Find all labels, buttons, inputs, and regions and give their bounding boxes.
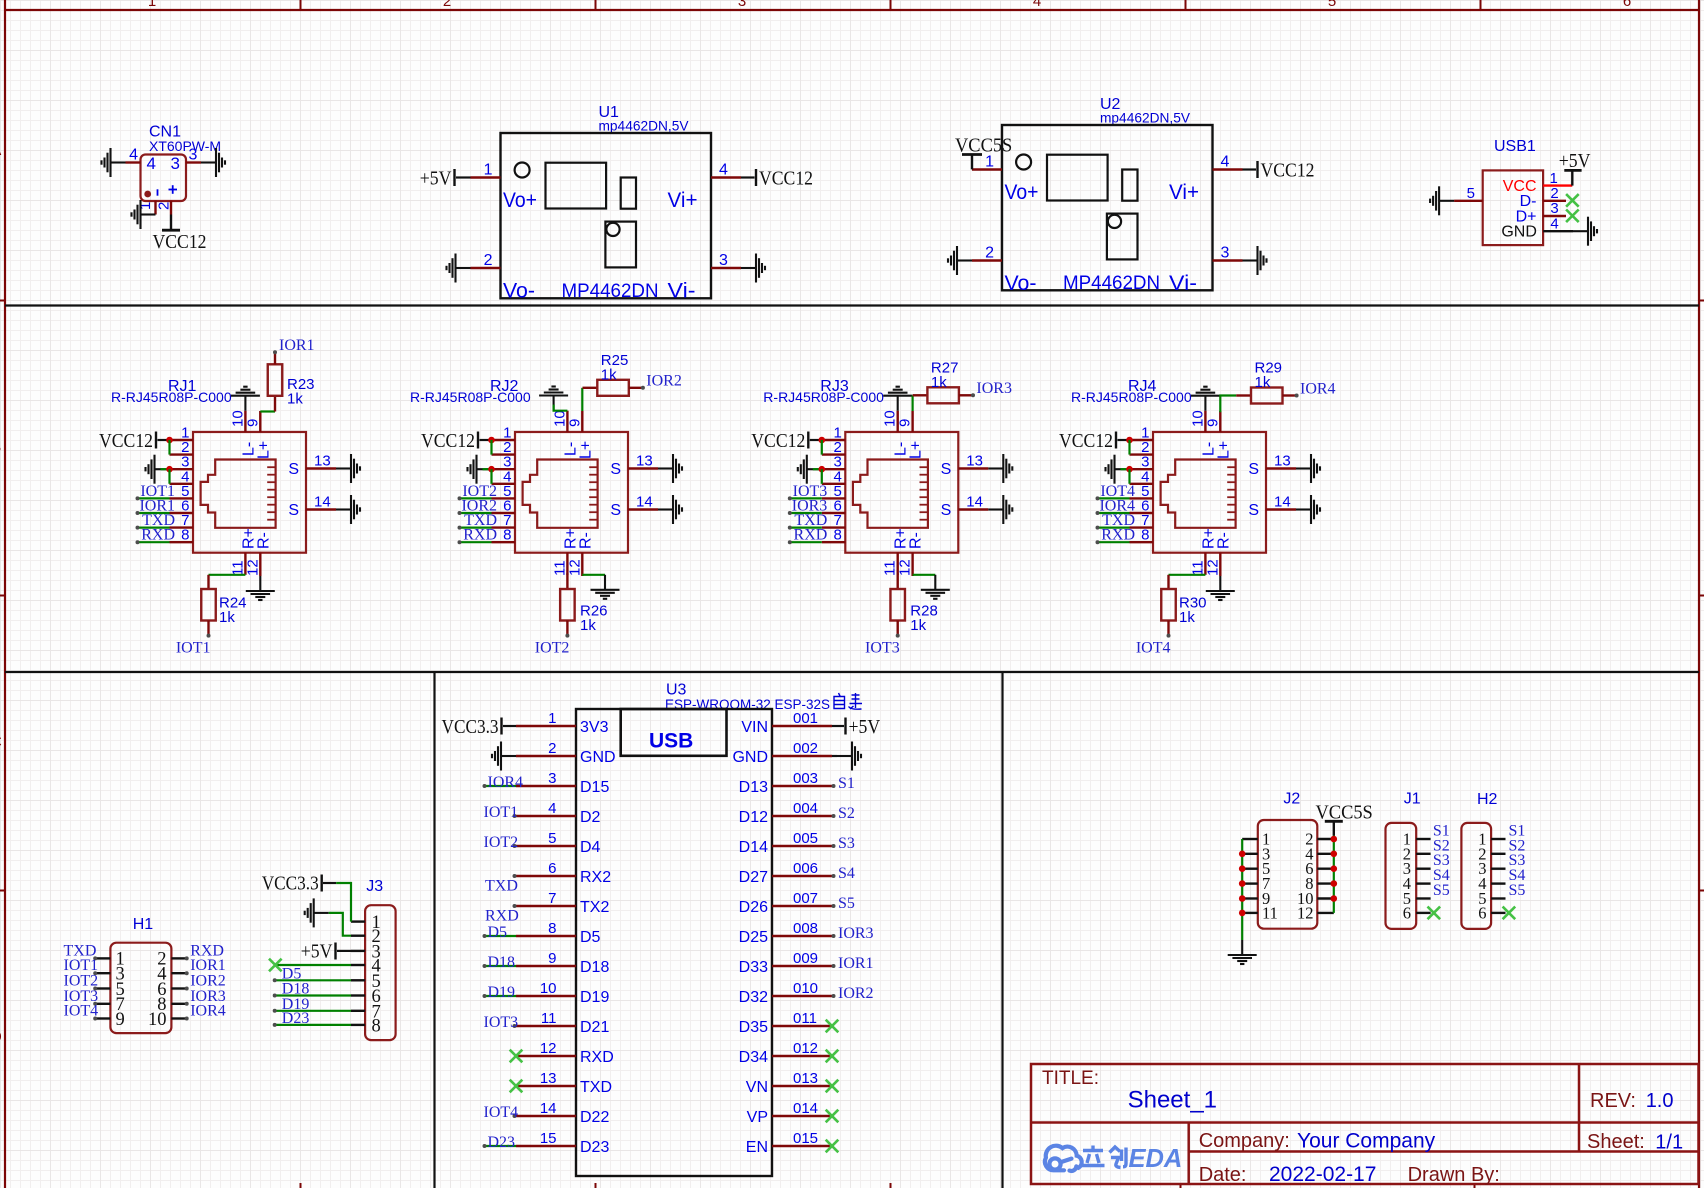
svg-text:D27: D27 — [739, 869, 768, 886]
svg-text:U3: U3 — [666, 682, 687, 699]
svg-text:IOR3: IOR3 — [976, 380, 1012, 397]
svg-text:D5: D5 — [580, 929, 601, 946]
junction J2 right bus — [1331, 851, 1338, 858]
ground at RJ1 pin 12 — [246, 576, 275, 600]
J3 pin 8 — [351, 1024, 365, 1026]
U1 interior rectangle small — [621, 178, 636, 209]
RJ3 pin 6 — [822, 512, 846, 514]
svg-text:D35: D35 — [739, 1019, 768, 1036]
section divider line horizontal 2 — [5, 671, 1699, 673]
ground at CN1 pin 4 — [102, 148, 126, 177]
svg-text:VCC12: VCC12 — [153, 231, 207, 253]
wire RJ1 pin 8 net RXD — [138, 541, 170, 543]
svg-text:IOR4: IOR4 — [488, 774, 524, 791]
svg-text:R-RJ45R08P-C000: R-RJ45R08P-C000 — [111, 389, 232, 405]
RJ4 pin 2 — [1130, 453, 1154, 455]
junction J2 right bus — [1331, 895, 1338, 902]
RJ1 pin 2 — [170, 453, 194, 455]
wire end IOR3 — [185, 1002, 189, 1006]
svg-text:D25: D25 — [739, 929, 768, 946]
power flag VCC5S at U2 pin 1 — [955, 135, 1012, 170]
svg-text:D23: D23 — [282, 1010, 310, 1027]
svg-text:VCC12: VCC12 — [759, 168, 813, 190]
svg-text:D18: D18 — [488, 954, 516, 971]
RJ4 pin 14 S — [1266, 508, 1296, 510]
wire end IOR3 — [832, 934, 836, 938]
svg-text:13: 13 — [314, 453, 331, 470]
svg-text:REV:: REV: — [1590, 1090, 1636, 1112]
wire end IOR2 — [641, 386, 645, 390]
wire RJ1 pin 9 to R23 — [260, 410, 275, 412]
net flag VCC12 at CN1 pin 2 — [153, 215, 207, 254]
svg-text:VP: VP — [747, 1109, 768, 1126]
U3 pin 1 3V3 — [516, 725, 576, 727]
svg-text:Drawn By:: Drawn By: — [1408, 1164, 1500, 1186]
ground at U2 pin 3 — [1243, 246, 1267, 275]
EasyEDA logo cloud — [1045, 1146, 1082, 1171]
svg-text:L+: L+ — [577, 441, 594, 459]
RJ1 pin 5 — [170, 497, 194, 499]
svg-text:VCC12: VCC12 — [751, 430, 805, 452]
U1 interior circle 2 — [606, 223, 619, 236]
wire end RXD — [1096, 540, 1100, 544]
CN1 pin 1 name minus — [157, 189, 159, 195]
module U3 value CJK suffix — [834, 693, 862, 709]
net label VCC3.3 at U3 pin 1 — [442, 716, 502, 738]
svg-text:D19: D19 — [580, 989, 609, 1006]
RJ4 pin 5 — [1130, 497, 1154, 499]
U3 pin 3 D15 — [516, 785, 576, 787]
header J3 body — [365, 905, 396, 1040]
RJ3 pin 9 L+ — [911, 411, 913, 432]
ground at J3 pin 2 — [305, 898, 329, 927]
ground at RJ1 pin 3 — [146, 455, 170, 484]
svg-text:Vo+: Vo+ — [503, 189, 537, 212]
wire end TXD — [513, 874, 517, 878]
svg-text:12: 12 — [566, 559, 583, 576]
wire J3 pin 5 net D5 — [275, 979, 351, 981]
RJ2 pin 3 — [492, 468, 516, 470]
no-connect at J3 pin 4 — [269, 959, 282, 972]
svg-text:006: 006 — [793, 860, 818, 877]
wire RJ2 pin 5 net IOT2 — [460, 497, 492, 499]
ground at RJ2 pin 13 — [658, 454, 682, 483]
svg-text:D14: D14 — [739, 839, 768, 856]
U2 pin 3 Vi- — [1213, 259, 1243, 261]
wire end IOR2 — [458, 511, 462, 515]
resistor R25 1k — [597, 380, 629, 396]
svg-text:7: 7 — [548, 890, 556, 907]
wire end IOR3 — [971, 393, 975, 397]
wire RJ3 pin 5 net IOT3 — [790, 497, 822, 499]
RJ3 pin 13 S — [958, 467, 988, 469]
U3 pin 4 D2 — [516, 815, 576, 817]
wire RJ2 pin 8 net RXD — [460, 541, 492, 543]
svg-text:D4: D4 — [580, 839, 601, 856]
wire RJ4 pin 7 net TXD — [1098, 526, 1130, 528]
U3 pin 006 D27 — [772, 875, 832, 877]
svg-text:8: 8 — [181, 527, 189, 544]
ground at RJ3 pin 13 — [988, 454, 1012, 483]
svg-text:D26: D26 — [739, 899, 768, 916]
wire end S4 — [832, 874, 836, 878]
RJ1 pin 7 — [170, 526, 194, 528]
frame column numbers — [148, 0, 1631, 10]
svg-text:001: 001 — [793, 710, 818, 727]
ground at RJ3 pin 14 — [988, 495, 1012, 524]
RJ4 pin 11 R+ — [1204, 553, 1206, 575]
net label VCC12 at RJ4 pin 1 — [1059, 430, 1116, 452]
U3 pin 013 VN — [772, 1085, 832, 1087]
svg-text:003: 003 — [793, 770, 818, 787]
U3 pin 8 D5 — [516, 935, 576, 937]
ground at USB1 pin 4 — [1573, 217, 1597, 246]
CN1 pin 2 name plus — [169, 185, 178, 194]
RJ3 pin 3 — [822, 468, 846, 470]
svg-text:15: 15 — [540, 1130, 557, 1147]
CN1 pin 1 — [154, 201, 156, 215]
R30 lead bottom — [1167, 621, 1169, 636]
wire RJ1 pin 3 to pin 4 — [168, 469, 170, 484]
svg-text:D2: D2 — [580, 809, 601, 826]
J3 pin 1 — [351, 920, 365, 922]
wire end S1 — [832, 784, 836, 788]
USB1 pin 5 — [1454, 200, 1483, 202]
svg-text:1k: 1k — [601, 367, 617, 384]
svg-text:IOT3: IOT3 — [865, 640, 900, 657]
svg-text:MP4462DN: MP4462DN — [562, 281, 659, 302]
RJ2 pin 2 — [492, 453, 516, 455]
ground at U1 pin 2 — [447, 254, 471, 283]
wire RJ3 pin 7 net TXD — [790, 526, 822, 528]
svg-text:4: 4 — [129, 147, 138, 164]
H1 pin 1 — [95, 957, 110, 959]
svg-text:14: 14 — [540, 1100, 557, 1117]
RJ2 pin 10 L- — [566, 411, 568, 432]
wire RJ4 pin 11 to R30 — [1169, 574, 1206, 576]
wire J3 pin 6 net D18 — [275, 994, 351, 996]
svg-text:H1: H1 — [133, 916, 154, 933]
svg-text:IOR2: IOR2 — [646, 373, 682, 390]
svg-text:VCC5S: VCC5S — [955, 135, 1012, 157]
svg-text:5: 5 — [548, 830, 556, 847]
wire end D5 — [483, 934, 487, 938]
R24 lead bottom — [207, 621, 209, 636]
wire RJ3 pin 6 net IOR3 — [790, 512, 822, 514]
wire end IOT1 — [136, 496, 140, 500]
svg-text:1/1: 1/1 — [1655, 1132, 1683, 1154]
svg-text:L+: L+ — [255, 441, 272, 459]
svg-text:3: 3 — [548, 770, 556, 787]
wire U2 pin 4 to VCC12 — [1243, 168, 1257, 170]
wire end IOR1 — [832, 964, 836, 968]
U2 pin 2 Vo- — [972, 259, 1002, 261]
ground at RJ1 pin 13 — [336, 454, 360, 483]
wire RJ2 pin 1 to pin 2 — [490, 440, 492, 455]
U3 pin 9 D18 — [516, 965, 576, 967]
net label VCC12 at U2 pin 4 — [1258, 160, 1315, 182]
wire end IOT2 — [565, 634, 569, 638]
no-connect at U3 pin 014 — [826, 1110, 839, 1123]
title block border — [1031, 1064, 1699, 1184]
junction RJ4 pin 1 — [1126, 437, 1133, 444]
J2 pin 5 — [1242, 868, 1258, 870]
svg-text:R-: R- — [255, 532, 272, 549]
svg-text:VIN: VIN — [741, 719, 768, 736]
no-connect at U3 pin 015 — [826, 1140, 839, 1153]
svg-text:14: 14 — [636, 494, 653, 511]
section divider line vertical left — [433, 672, 435, 1188]
junction J2 left bus — [1239, 910, 1246, 917]
svg-text:9: 9 — [566, 419, 583, 427]
svg-text:VCC3.3: VCC3.3 — [442, 716, 499, 738]
svg-text:D21: D21 — [580, 1019, 609, 1036]
RJ3 pin 11 R+ — [897, 553, 899, 575]
RJ1 pin 6 — [170, 512, 194, 514]
svg-text:RXD: RXD — [794, 527, 828, 544]
U1 pin 4 Vi+ — [711, 176, 741, 178]
svg-text:+5V: +5V — [849, 716, 881, 738]
svg-text:TITLE:: TITLE: — [1042, 1068, 1099, 1089]
U2 interior circle — [1016, 155, 1031, 170]
svg-text:2: 2 — [443, 0, 451, 10]
U2 interior rectangle small — [1122, 170, 1137, 201]
resistor R29 1k — [1251, 388, 1283, 404]
connector RJ2 body — [515, 432, 628, 553]
RJ3 pin 2 — [822, 453, 846, 455]
wire U3 pin 8 net D5 — [485, 935, 517, 937]
H1 pin 6 — [171, 987, 186, 989]
svg-text:13: 13 — [636, 453, 653, 470]
svg-text:S5: S5 — [1509, 882, 1526, 899]
ground at RJ2 pin 14 — [658, 495, 682, 524]
wire end TXD — [93, 956, 97, 960]
RJ2 pin 5 — [492, 497, 516, 499]
wire RJ1 pin 11 to R24 — [209, 574, 246, 576]
J2 pin 6 — [1317, 868, 1334, 870]
RJ2 pin 8 — [492, 541, 516, 543]
RJ3 pin 10 L- — [897, 411, 899, 432]
svg-text:S: S — [288, 502, 299, 519]
regulator U2 body — [1002, 125, 1213, 290]
U3 pin 5 D4 — [516, 845, 576, 847]
svg-text:007: 007 — [793, 890, 818, 907]
svg-text:VCC12: VCC12 — [99, 430, 153, 452]
junction J2 left bus — [1239, 865, 1246, 872]
net label VCC12 at U1 pin 4 — [756, 168, 813, 190]
U3 pin 11 D21 — [516, 1025, 576, 1027]
U3 pin 015 EN — [772, 1145, 832, 1147]
svg-text:12: 12 — [540, 1040, 557, 1057]
svg-text:S: S — [610, 502, 621, 519]
svg-text:D: D — [0, 1029, 2, 1046]
resistor R24 1k — [201, 589, 216, 621]
wire end IOR4 — [185, 1017, 189, 1021]
wire end IOT4 — [93, 1017, 97, 1021]
wire end IOR2 — [832, 994, 836, 998]
H2 pin 1 — [1491, 838, 1505, 840]
wire J3 pin 7 net D19 — [275, 1010, 351, 1012]
R29 lead right — [1283, 394, 1297, 396]
svg-text:1: 1 — [148, 0, 156, 10]
U3 pin 003 D13 — [772, 785, 832, 787]
svg-text:1k: 1k — [931, 374, 947, 391]
RJ1 pin 12 R- — [259, 553, 261, 576]
svg-text:8: 8 — [503, 527, 511, 544]
wire VCC12 to RJ2 pin 1 — [480, 439, 492, 441]
U1 interior rectangle large — [546, 163, 607, 209]
svg-text:S: S — [941, 461, 952, 478]
wire end TXD — [458, 526, 462, 530]
svg-text:TX2: TX2 — [580, 899, 609, 916]
wire end IOR1 — [136, 511, 140, 515]
RJ4 pin 7 — [1130, 526, 1154, 528]
svg-text:R-RJ45R08P-C000: R-RJ45R08P-C000 — [410, 389, 531, 405]
svg-text:L+: L+ — [908, 441, 925, 459]
RJ2 pin 14 S — [628, 508, 658, 510]
junction RJ2 pin 1 — [488, 437, 495, 444]
svg-text:5: 5 — [1328, 0, 1336, 10]
svg-text:1k: 1k — [219, 609, 235, 626]
USB1 pin 1 VCC — [1543, 184, 1572, 186]
svg-text:+5V: +5V — [301, 941, 333, 963]
U3 pin 15 D23 — [516, 1145, 576, 1147]
svg-text:11: 11 — [541, 1010, 557, 1027]
svg-text:14: 14 — [966, 494, 983, 511]
ground at RJ1 pin 14 — [336, 495, 360, 524]
H2 pin 4 — [1491, 882, 1505, 884]
svg-text:IOT1: IOT1 — [176, 640, 211, 657]
U2 pin 1 Vo+ — [972, 168, 1002, 170]
svg-text:RXD: RXD — [463, 527, 497, 544]
ground at RJ4 pin 10 — [1191, 387, 1220, 411]
svg-text:S5: S5 — [838, 895, 855, 912]
svg-text:8: 8 — [833, 527, 841, 544]
svg-text:IOT4: IOT4 — [1136, 640, 1171, 657]
U1 pin 3 Vi- — [711, 267, 741, 269]
svg-text:9: 9 — [548, 950, 556, 967]
wire VCC12 to RJ4 pin 1 — [1118, 439, 1130, 441]
svg-text:S: S — [941, 502, 952, 519]
ground at U1 pin 3 — [741, 254, 765, 283]
H1 pin 7 — [95, 1003, 110, 1005]
RJ1 pin 13 S — [306, 467, 336, 469]
wire end D18 — [273, 994, 277, 998]
svg-text:D22: D22 — [580, 1109, 609, 1126]
frame row letters — [0, 142, 2, 1046]
header J1 body — [1386, 823, 1417, 929]
wire J3 pin 4 — [275, 964, 351, 966]
RJ4 pin 10 L- — [1204, 411, 1206, 432]
wire end IOT4 — [1096, 496, 1100, 500]
svg-text:1k: 1k — [1255, 374, 1271, 391]
svg-text:9: 9 — [897, 419, 914, 427]
ground at J2 — [1228, 940, 1257, 964]
svg-text:1.0: 1.0 — [1646, 1090, 1674, 1112]
svg-text:S: S — [1248, 502, 1259, 519]
wire end IOT1 — [513, 814, 517, 818]
J2 pin 2 — [1317, 838, 1334, 840]
svg-text:IOT2: IOT2 — [535, 640, 570, 657]
svg-text:GND: GND — [580, 749, 616, 766]
RJ2 pin 13 S — [628, 467, 658, 469]
svg-text:R-RJ45R08P-C000: R-RJ45R08P-C000 — [763, 389, 884, 405]
J2 pin 11 — [1242, 912, 1258, 914]
J3 pin 3 — [351, 950, 365, 952]
svg-text:5: 5 — [1467, 185, 1475, 202]
wire RJ1 pin 7 net TXD — [138, 526, 170, 528]
RJ2 pin 12 R- — [581, 553, 583, 576]
resistor R23 1k — [268, 364, 283, 396]
J2 pin 1 — [1242, 838, 1258, 840]
RJ3 jack symbol — [853, 460, 928, 528]
svg-text:Vo-: Vo- — [503, 280, 535, 303]
svg-text:13: 13 — [1274, 453, 1291, 470]
J2 pin 3 — [1242, 853, 1258, 855]
svg-text:S3: S3 — [838, 835, 855, 852]
svg-text:Company:: Company: — [1199, 1130, 1290, 1152]
junction RJ1 pin 1 — [166, 437, 173, 444]
H2 pin 3 — [1491, 868, 1505, 870]
R30 lead top — [1167, 575, 1169, 589]
svg-text:1k: 1k — [1179, 609, 1195, 626]
wire RJ3 pin 8 net RXD — [790, 541, 822, 543]
svg-text:9: 9 — [244, 419, 261, 427]
svg-text:008: 008 — [793, 920, 818, 937]
wire RJ2 pin 6 net IOR2 — [460, 512, 492, 514]
J2 pin 7 — [1242, 882, 1258, 884]
svg-text:4: 4 — [719, 162, 728, 179]
svg-text:10: 10 — [148, 1010, 167, 1030]
wire U1 pin 4 to VCC12 — [741, 176, 755, 178]
net label VCC12 at RJ1 pin 1 — [99, 430, 156, 452]
svg-text:RX2: RX2 — [580, 869, 611, 886]
J3 pin 5 — [351, 979, 365, 981]
wire VCC12 to RJ1 pin 1 — [158, 439, 170, 441]
no-connect at U3 pin 13 — [510, 1080, 523, 1093]
svg-text:+5V: +5V — [420, 168, 452, 190]
no-connect at U3 pin 012 — [826, 1050, 839, 1063]
svg-text:S: S — [288, 461, 299, 478]
R25 lead left — [583, 387, 598, 389]
svg-text:GND: GND — [1501, 224, 1537, 241]
USB1 pin 2 D- — [1543, 200, 1566, 202]
svg-text:8: 8 — [1141, 527, 1149, 544]
wire end S2 — [832, 814, 836, 818]
net label VCC12 at RJ2 pin 1 — [421, 430, 478, 452]
R24 lead top — [207, 575, 209, 589]
svg-text:S: S — [1248, 461, 1259, 478]
U3 pin 014 VP — [772, 1115, 832, 1117]
RJ2 pin 11 R+ — [566, 553, 568, 575]
svg-text:XT60PW-M: XT60PW-M — [149, 138, 221, 154]
J3 pin 7 — [351, 1010, 365, 1012]
wire end TXD — [788, 526, 792, 530]
ground at RJ4 pin 3 — [1106, 455, 1130, 484]
R25 lead right — [629, 387, 643, 389]
resistor R26 1k — [560, 589, 575, 621]
svg-text:D34: D34 — [739, 1049, 768, 1066]
svg-text:mp4462DN,5V: mp4462DN,5V — [599, 118, 690, 134]
junction RJ4 pin 3 — [1126, 466, 1133, 473]
no-connect at J1 pin 6 — [1428, 907, 1441, 920]
wire end IOR2 — [185, 987, 189, 991]
svg-text:VCC12: VCC12 — [1261, 160, 1315, 182]
svg-text:J2: J2 — [1283, 791, 1300, 808]
svg-text:1: 1 — [548, 710, 556, 727]
wire end IOT2 — [93, 987, 97, 991]
connector RJ1 body — [193, 432, 306, 553]
